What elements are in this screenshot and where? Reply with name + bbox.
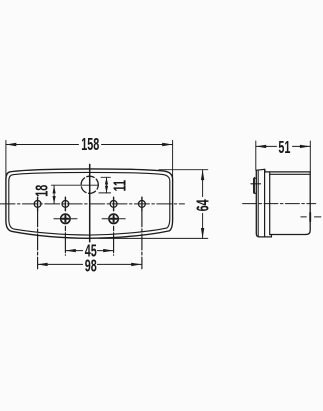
label 64 [197, 197, 210, 213]
label 158 [79, 137, 101, 151]
side: fastening hole marker [301, 213, 321, 221]
node marker circle right outer [139, 197, 146, 211]
dim 18 extension line [51, 184, 98, 186]
dim 45 arrows [65, 249, 75, 252]
svg-text:158: 158 [81, 135, 99, 154]
dim 51 extension right [309, 141, 311, 172]
dim 64 extension top [159, 169, 208, 171]
dim 51 line [256, 145, 310, 147]
svg-text:11: 11 [111, 180, 130, 191]
svg-text:51: 51 [278, 138, 290, 157]
dim 64 line [202, 170, 204, 239]
lamp housing outer outline (front view) [6, 169, 173, 238]
arrowheads [6, 143, 310, 266]
side: mounting screw tab [254, 178, 257, 193]
side: base left outer edge [256, 170, 271, 237]
side: cap top edge [256, 169, 265, 172]
dim 11 extension bottom [99, 192, 111, 194]
dim 64 extension bottom [99, 237, 208, 239]
side: base left inner edge [257, 170, 259, 236]
side: lens top outer line [265, 171, 310, 173]
lamp housing inner lens line [9, 172, 170, 235]
vertical centerline of lamp [89, 164, 91, 241]
side: horizontal centerline [243, 203, 316, 205]
label 45 [83, 244, 97, 257]
svg-text:98: 98 [85, 257, 97, 276]
dim 64 arrows [201, 170, 204, 180]
screw hole right [102, 214, 125, 223]
svg-text:64: 64 [194, 199, 213, 212]
dim 51 arrows [256, 145, 266, 148]
dim 158 arrows [6, 143, 16, 146]
svg-text:18: 18 [33, 185, 52, 197]
dim 18 arrows [53, 186, 56, 194]
dim 98 line [38, 263, 142, 265]
screw hole left [54, 214, 77, 223]
cable entry circle (dashed) [81, 176, 98, 193]
dim 45 line [65, 250, 113, 252]
hole centerline x=37.2 down [37, 211, 39, 269]
label 51 [277, 140, 292, 153]
dim 11 arrows [105, 177, 108, 184]
horizontal centerline of front view [0, 203, 185, 205]
node marker circle left outer [34, 197, 41, 211]
dim 158 extension line right [172, 140, 174, 180]
side: lens rear edge [269, 172, 271, 235]
node marker circle right inner [110, 197, 117, 211]
dim 51 extension left [255, 141, 257, 170]
dim 11 extension top [101, 176, 110, 178]
side: base front edge [264, 170, 266, 237]
hole centerline x=65.4 down [64, 226, 66, 255]
side: screw cross [251, 183, 261, 185]
dim 98 arrows [37, 263, 47, 266]
label 98 [83, 259, 97, 272]
node marker circle left inner [62, 197, 69, 211]
dim 158 extension line left [5, 140, 7, 180]
dim 158 line [6, 144, 173, 146]
hole centerline x=141.6 down [141, 211, 143, 269]
hole centerline x=113.6 down [113, 226, 115, 255]
dim 11 arrow line [106, 177, 108, 193]
side: lens top inner line [270, 173, 311, 175]
side: lens right edge [306, 172, 310, 235]
dim 18 arrow line [53, 186, 55, 204]
side: lens bottom edge [270, 234, 306, 236]
